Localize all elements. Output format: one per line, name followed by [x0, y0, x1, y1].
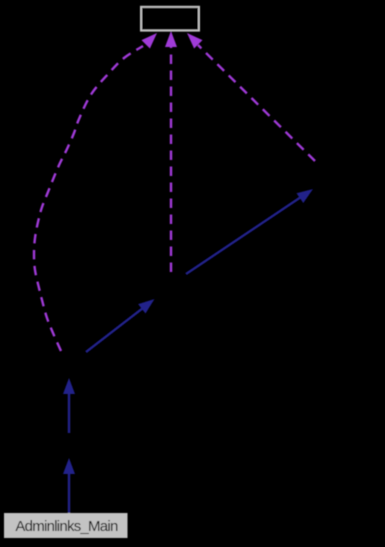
arrowhead edge C	[138, 299, 154, 314]
wire edge hidden node B to top box (purple dashed curve)	[34, 46, 143, 351]
arrowhead dashed right	[187, 33, 203, 49]
wire edge hidden node B to hidden node C (blue solid diagonal)	[86, 308, 143, 352]
arrowhead dashed left	[142, 33, 158, 49]
wire edge hidden node C to top box (purple dashed vertical)	[170, 47, 172, 272]
arrowhead edge D	[297, 189, 314, 203]
wire edge hidden node D to top box (purple dashed diagonal)	[198, 45, 315, 161]
node top (empty box)	[141, 7, 199, 31]
wire edge hidden node A to hidden node B (blue solid)	[68, 393, 70, 433]
arrowhead edge B	[63, 378, 75, 394]
node Adminlinks_Main	[4, 513, 128, 538]
arrowhead edge A	[63, 458, 75, 474]
wire edge Adminlinks_Main to hidden node A (blue solid)	[68, 473, 70, 513]
arrowhead dashed middle	[165, 31, 177, 47]
wire edge hidden node C to hidden node D (blue solid diagonal)	[186, 197, 301, 274]
svg-text:Adminlinks_Main: Adminlinks_Main	[15, 518, 118, 535]
